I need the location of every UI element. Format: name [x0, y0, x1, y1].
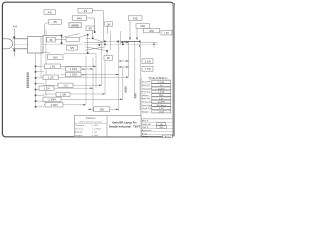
callout box 4D — [86, 26, 95, 31]
table row 3 — [142, 87, 171, 90]
svg-text:1 3/4: 1 3/4 — [44, 86, 50, 90]
empty box right of 36 — [66, 37, 79, 41]
dimension row 2 — [61, 67, 93, 71]
svg-text:Scale: Scale — [142, 133, 148, 135]
svg-text:Tolerance: Tolerance — [86, 117, 97, 120]
table row 8 — [142, 104, 171, 107]
leader from J/S — [92, 11, 103, 43]
svg-text:7 7/8: 7 7/8 — [145, 67, 151, 71]
seal cluster verticals — [87, 31, 121, 54]
gland mid lines — [41, 38, 103, 54]
right vertical connector — [139, 41, 141, 76]
svg-text:Fractional: Fractional — [75, 124, 85, 127]
extension line x35.6 — [35, 53, 37, 107]
right box 1 1/8 — [142, 59, 153, 64]
tolerance row decimal — [75, 128, 102, 130]
leader diagonals into seal — [62, 34, 105, 51]
shaft end cap — [3, 39, 13, 49]
dimension 260 bottom — [88, 107, 119, 112]
svg-text:A/S: A/S — [48, 10, 53, 14]
svg-text:Hollow: Hollow — [142, 95, 149, 97]
svg-text:Decimal: Decimal — [75, 128, 83, 130]
table row 7 — [142, 100, 171, 103]
mid dim arrows — [121, 42, 155, 48]
extension line x118.8 — [118, 41, 120, 111]
svg-text:1 3/1: 1 3/1 — [50, 65, 56, 69]
svg-text:1 2/5: 1 2/5 — [48, 75, 54, 79]
callout box 36 — [47, 37, 66, 42]
dimension row 9 — [44, 103, 86, 107]
callout box 34D — [129, 16, 143, 41]
svg-text:Drawn: Drawn — [142, 135, 149, 138]
dimension row 4 — [43, 75, 129, 79]
leader from 4PS — [87, 18, 96, 33]
svg-text:Bore Dia: Bore Dia — [142, 97, 151, 100]
callout box 46 — [104, 50, 112, 60]
svg-text:± .005: ± .005 — [92, 125, 99, 127]
svg-text:1.164: 1.164 — [158, 112, 164, 114]
svg-text:260: 260 — [99, 108, 104, 112]
svg-text:5/5: 5/5 — [70, 46, 74, 50]
svg-text:Gear Style: Gear Style — [142, 104, 153, 107]
revs header — [141, 119, 173, 123]
extension line x101.8 — [101, 41, 103, 85]
title block frame — [74, 115, 141, 136]
svg-text:± -0.0004: ± -0.0004 — [92, 128, 102, 130]
svg-text:N/16 TPI: N/16 TPI — [142, 85, 151, 87]
svg-text:1 30/4: 1 30/4 — [50, 103, 58, 107]
svg-text:± .004: ± .004 — [92, 135, 99, 137]
svg-text:36: 36 — [50, 38, 53, 42]
svg-text:1 /28: 1 /28 — [60, 93, 66, 97]
dwg by row — [141, 123, 173, 126]
svg-text:46: 46 — [107, 56, 110, 60]
svg-text:24D: 24D — [140, 24, 145, 28]
svg-text:1 /2: 1 /2 — [63, 83, 68, 87]
vertical text 4/10 — [125, 87, 127, 93]
svg-text:1 1/40: 1 1/40 — [70, 73, 78, 77]
chkd row — [141, 126, 173, 129]
extension line x105 — [104, 61, 106, 95]
shaft body — [13, 39, 28, 49]
dimension row 7 — [43, 92, 105, 96]
scale row — [141, 133, 173, 135]
right box 7 7/8 — [142, 66, 153, 71]
right data table frame — [141, 76, 171, 137]
tolerance row fractional — [75, 124, 99, 127]
svg-text:49 1/2: 49 1/2 — [164, 136, 171, 138]
svg-text:AVG: AVG — [82, 74, 87, 77]
svg-text:4D: 4D — [89, 27, 92, 31]
table row 5 — [142, 94, 171, 97]
callout box 24D — [136, 24, 150, 41]
svg-text:Teeth P/D: Teeth P/D — [142, 107, 152, 110]
svg-text:J/S: J/S — [83, 9, 87, 13]
table row 10 — [142, 110, 171, 113]
svg-text:1 1/8: 1 1/8 — [145, 60, 151, 64]
svg-text:3mm TPI: 3mm TPI — [142, 82, 151, 84]
extension line x128.6 — [128, 41, 130, 77]
callout box A/S — [44, 10, 56, 15]
callout box 5/5 — [67, 46, 78, 51]
tolerance header — [74, 117, 107, 123]
dimension row 6 — [39, 86, 93, 90]
extension line x86 — [85, 56, 87, 104]
svg-text:4PS: 4PS — [77, 16, 82, 20]
table row 9 — [142, 107, 171, 110]
table row 6 — [142, 97, 171, 100]
dimension row 1 — [45, 64, 97, 69]
table row separators — [141, 83, 173, 113]
svg-text:JW: JW — [107, 22, 111, 26]
dim arrows between x119 x129 — [119, 60, 129, 68]
extension line x46 — [45, 30, 47, 104]
svg-text:AVS: AVS — [13, 26, 18, 29]
svg-text:DWG. BY: DWG. BY — [142, 124, 152, 126]
extension line x140 — [139, 78, 141, 110]
dimension row 3 — [61, 72, 119, 76]
callout box 4/5 — [49, 19, 62, 24]
gland top line — [43, 35, 62, 44]
bolt face tick dots — [35, 66, 37, 108]
svg-text:1 1/45: 1 1/45 — [70, 67, 78, 71]
callout box J/S — [78, 8, 92, 13]
extension line x122.8 — [122, 67, 124, 99]
leader from 4/5 to sleeve — [45, 22, 49, 35]
svg-text:Weight: Weight — [142, 110, 149, 113]
svg-text:Thread TPI: Thread TPI — [142, 87, 153, 90]
dimension row 5 — [43, 83, 102, 87]
callout box (D) — [161, 30, 172, 35]
svg-text:6mm BR Layup Fix: 6mm BR Layup Fix — [112, 120, 137, 124]
svg-text:Onsafe Industrial - T50/T: Onsafe Industrial - T50/T — [109, 124, 141, 128]
seal top outline — [103, 41, 157, 46]
svg-text:N/D: N/D — [160, 127, 164, 129]
sleeve block — [28, 37, 44, 53]
callout box HHD — [69, 23, 81, 28]
svg-text:1 39/4: 1 39/4 — [48, 98, 56, 102]
svg-text:Lengths: Lengths — [75, 134, 82, 137]
svg-text:Unless otherwise specified: Unless otherwise specified — [79, 120, 101, 123]
svg-text:Angular: Angular — [75, 131, 82, 134]
callout box 4/W — [144, 28, 160, 33]
shaft diameter dimension line — [13, 26, 18, 57]
bolt face stubs — [36, 66, 45, 107]
vertical text NFU — [134, 94, 136, 98]
svg-text:CHK'D: CHK'D — [142, 127, 149, 129]
dimension row 8 — [43, 97, 123, 101]
table row 4 — [142, 90, 171, 93]
callout box 260 upper — [48, 55, 64, 60]
extension line x41 — [40, 53, 42, 77]
table row 2 — [142, 84, 171, 87]
title text — [109, 120, 141, 128]
svg-text:( D): ( D) — [164, 31, 168, 35]
svg-text:4/W: 4/W — [149, 29, 154, 33]
bolt face label — [27, 73, 29, 88]
svg-text:260: 260 — [53, 55, 58, 59]
tolerance row lengths — [75, 134, 99, 137]
svg-text:4/5: 4/5 — [53, 20, 57, 24]
extension line x134.8 — [134, 41, 136, 99]
callout box 4PS — [72, 16, 87, 21]
callout box JW — [105, 22, 113, 34]
CF vertical text — [138, 128, 140, 131]
drawn row — [142, 135, 173, 138]
extension line x96 — [95, 54, 97, 88]
tolerance row angular — [75, 131, 97, 134]
table row 1 — [142, 80, 171, 83]
approved row — [141, 129, 173, 132]
svg-text:Approved: Approved — [142, 129, 152, 132]
shaft centerline — [12, 43, 158, 45]
svg-text:34D: 34D — [133, 17, 138, 21]
svg-text:Pitch Dia: Pitch Dia — [142, 91, 152, 94]
extension line x93 — [92, 58, 94, 111]
svg-text:(HHD): (HHD) — [72, 24, 79, 27]
